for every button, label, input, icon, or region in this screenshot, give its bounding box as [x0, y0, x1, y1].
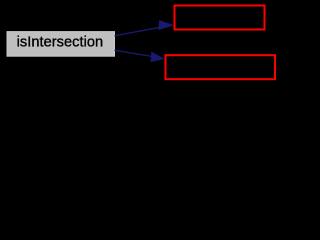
node (truncated, red) bottom: [166, 55, 276, 79]
node isIntersection (current node, grey): [7, 32, 115, 57]
node (truncated, red) top: [175, 6, 265, 30]
wire edge to top node: [115, 20, 174, 35]
wire edge to bottom node: [115, 50, 165, 62]
call graph: isIntersection: [0, 0, 281, 88]
svg-text:isIntersection: isIntersection: [17, 35, 103, 51]
